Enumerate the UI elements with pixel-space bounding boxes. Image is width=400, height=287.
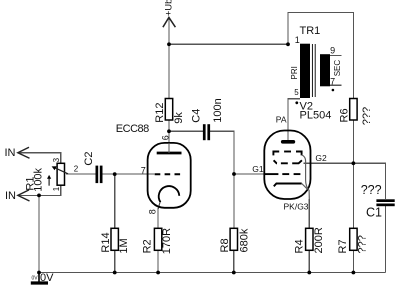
node R4 rail junction — [307, 271, 311, 275]
svg-text:R14: R14 — [100, 232, 112, 252]
potentiometer R1 100k body — [57, 163, 64, 185]
svg-text:IN: IN — [5, 147, 16, 159]
wire C4 to G1 node — [210, 131, 234, 174]
wire ECC88 cathode to R2 — [158, 203, 160, 229]
svg-text:R12: R12 — [154, 103, 166, 123]
ground symbol 0V — [38, 273, 40, 283]
wire 0V drop from IN junction — [38, 195, 40, 272]
triode anode lead — [168, 143, 170, 153]
triode cathode arc — [159, 186, 180, 202]
wire R8 bottom to rail — [233, 250, 235, 272]
svg-text:0V: 0V — [32, 276, 39, 282]
svg-text:R4: R4 — [294, 239, 306, 253]
wire TR1 secondary pin9 stub — [330, 55, 341, 57]
wire +Ub rail to TR1 pin1 — [169, 43, 288, 45]
wire R12 bottom to anode node — [168, 120, 170, 131]
triode U1 ECC88 envelope — [148, 143, 191, 208]
svg-text:170R: 170R — [161, 228, 173, 254]
input arrow IN top — [18, 147, 30, 158]
wire R7 bottom to rail — [352, 250, 354, 272]
node R2 rail junction — [156, 271, 160, 275]
svg-text:G2: G2 — [315, 153, 327, 163]
resistor R4 — [306, 228, 313, 250]
svg-text:???: ??? — [361, 183, 382, 197]
svg-text:7: 7 — [141, 165, 146, 175]
triode grid dashes — [155, 173, 185, 175]
svg-text:ECC88: ECC88 — [116, 123, 149, 135]
input arrow IN bottom — [18, 190, 30, 201]
node C4/G1/R8 junction — [232, 172, 236, 176]
transformer primary phase dot — [295, 101, 298, 104]
capacitor C1 — [376, 199, 394, 206]
wire G2 node down to R7 — [352, 163, 354, 228]
svg-text:???: ??? — [357, 235, 369, 253]
svg-text:SEC: SEC — [333, 60, 342, 77]
svg-text:100n: 100n — [212, 98, 224, 122]
wire pot wiper to C2 — [66, 173, 96, 175]
node ground junction — [37, 271, 41, 275]
node R7 rail junction — [352, 271, 356, 275]
wire G1 node to PL504 grid1 — [234, 173, 264, 175]
pentode top cap anode bar — [281, 140, 295, 144]
svg-text:C2: C2 — [83, 152, 95, 166]
svg-text:3: 3 — [52, 157, 61, 162]
svg-text:C1: C1 — [366, 206, 382, 220]
potentiometer R1 wiper arrow — [54, 167, 69, 174]
svg-text:1: 1 — [295, 35, 300, 45]
wire anode node to C4 — [169, 130, 203, 132]
node anode/R12/C4 junction — [167, 129, 171, 133]
wire PL504 cathode to R4 — [308, 199, 310, 228]
svg-text:G1: G1 — [252, 164, 264, 174]
wire C1 bottom to rail corner — [385, 206, 387, 273]
svg-text:0V: 0V — [40, 272, 54, 284]
wire grid node down to R14 — [114, 174, 116, 228]
node C2/grid/R14 junction — [113, 172, 117, 176]
+Ub supply arrow — [163, 17, 176, 27]
svg-text:PK/G3: PK/G3 — [284, 201, 309, 211]
svg-text:200R: 200R — [313, 227, 325, 253]
svg-text:6: 6 — [161, 135, 171, 140]
wire anode node down to ECC88 anode — [168, 131, 170, 153]
wire R14 bottom to rail — [114, 250, 116, 272]
wire PL504 G2 to R6/R7 node — [304, 162, 354, 164]
pentode cathode — [274, 184, 302, 187]
wire +Ub down to R12 — [168, 19, 170, 99]
svg-text:IN: IN — [5, 190, 16, 202]
svg-text:+Ub: +Ub — [163, 0, 174, 16]
resistor R2 — [154, 228, 161, 250]
svg-text:R8: R8 — [219, 238, 231, 252]
triode anode plate — [157, 152, 182, 155]
pentode G1 dashed row — [264, 173, 300, 175]
svg-text:9: 9 — [330, 45, 335, 55]
transformer secondary phase dot — [332, 89, 335, 92]
svg-text:R7: R7 — [337, 239, 349, 253]
wire TR1 pin5 to PL504 top cap — [288, 99, 300, 140]
wire R6 bottom to G2 node — [352, 120, 354, 163]
wire C2 to grid node — [103, 173, 155, 175]
resistor R6 — [350, 99, 357, 121]
svg-text:1: 1 — [52, 186, 61, 191]
wire R2 bottom to rail — [157, 250, 159, 272]
node IN/0V junction — [37, 194, 41, 198]
pentode G3 dashed row with hooks — [273, 152, 301, 156]
svg-text:???: ??? — [361, 107, 373, 125]
transformer TR1 core — [312, 44, 315, 97]
node R14 rail junction — [113, 271, 117, 275]
svg-text:TR1: TR1 — [300, 25, 321, 37]
resistor R14 — [111, 228, 118, 250]
svg-text:7: 7 — [330, 76, 335, 86]
potentiometer R1 adjust arrow — [48, 178, 50, 186]
node R6/G2/R7/C1 junction — [352, 161, 356, 165]
svg-text:8: 8 — [147, 209, 157, 214]
svg-text:5: 5 — [294, 88, 299, 97]
wire G2 node to C1 branch — [353, 163, 385, 199]
capacitor C4 — [203, 124, 210, 140]
resistor R7 — [350, 228, 357, 250]
transformer TR1 primary winding — [300, 44, 310, 98]
svg-text:PA: PA — [276, 115, 287, 125]
pentode V2 PL504 envelope — [264, 131, 310, 200]
svg-text:9k: 9k — [173, 112, 185, 124]
pentode cathode junction diagonal — [302, 184, 308, 190]
svg-text:R6: R6 — [339, 108, 351, 122]
svg-text:PRI: PRI — [290, 66, 299, 79]
pentode internal G3-cathode tie lead — [302, 155, 310, 199]
pentode G2 dashed row — [274, 160, 302, 163]
node R8 rail junction — [232, 271, 236, 275]
svg-text:100k: 100k — [33, 167, 45, 191]
resistor R12 — [165, 99, 172, 121]
svg-text:PL504: PL504 — [300, 110, 332, 122]
wire bottom IN to pot pin1 — [18, 185, 61, 195]
svg-text:680k: 680k — [238, 228, 250, 252]
wire R4 bottom to rail — [308, 250, 310, 272]
resistor R8 — [230, 228, 237, 250]
wire top IN to pot pin3 — [18, 153, 61, 164]
svg-text:R2: R2 — [142, 239, 154, 253]
svg-text:2: 2 — [74, 165, 79, 174]
node TR1 pin1 junction — [286, 42, 290, 46]
transformer TR1 secondary winding — [320, 54, 330, 86]
wire TR1 pin1 up over transformer to R6 — [288, 13, 353, 99]
wire bottom 0V rail — [39, 272, 386, 274]
svg-text:C4: C4 — [190, 109, 202, 123]
svg-text:1M: 1M — [118, 238, 130, 253]
wire G1 node down to R8 — [233, 174, 235, 228]
wire TR1 secondary pin7 stub — [330, 84, 341, 86]
capacitor C2 — [96, 166, 103, 184]
node +Ub/R12 junction — [167, 42, 171, 46]
